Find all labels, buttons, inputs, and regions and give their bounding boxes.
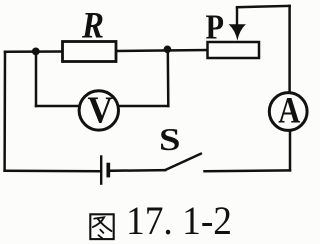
resistor R body (63, 42, 117, 62)
wire: resistor right terminal to potentiometer left terminal (116, 50, 208, 51)
potentiometer P body (208, 42, 260, 58)
wire: switch right contact to bottom-right corner (205, 169, 291, 172)
wire: top-left horizontal from corner to resistor (5, 50, 63, 53)
svg-text:A: A (278, 90, 300, 131)
wire: voltmeter branch - left horizontal into voltmeter (36, 105, 84, 108)
potentiometer wiper arrow stem (236, 7, 238, 27)
svg-text:P: P (206, 8, 225, 47)
wire: left vertical side of outer loop (3, 52, 6, 171)
ammeter U2 circle (269, 93, 307, 131)
node B junction dot (164, 46, 172, 54)
wire: voltmeter branch - vertical up to node B (167, 50, 170, 107)
wire: battery to switch pivot (108, 169, 165, 172)
node A junction dot (32, 48, 40, 56)
svg-text:S: S (159, 121, 181, 157)
potentiometer wiper arrowhead (229, 24, 246, 40)
svg-text:R: R (81, 6, 104, 47)
wire: voltmeter branch - vertical drop from node A (35, 51, 38, 106)
wire: bottom horizontal from left corner to battery (5, 170, 101, 173)
wire: voltmeter branch - right horizontal from voltmeter (114, 105, 168, 108)
caption character 图 (hand-drawn glyph) (90, 214, 113, 239)
voltmeter U1 circle (79, 91, 118, 130)
wire: bottom-right vertical up to ammeter bottom (289, 130, 292, 170)
battery long plate (positive) (100, 155, 102, 185)
svg-text:17. 1-2: 17. 1-2 (126, 198, 232, 243)
wire: ammeter top up to top-right corner (288, 6, 291, 93)
battery short plate (negative) (106, 163, 110, 178)
switch S blade (165, 154, 201, 171)
svg-text:V: V (88, 89, 114, 131)
wire: top-right horizontal to potentiometer wiper arrow (237, 6, 290, 7)
